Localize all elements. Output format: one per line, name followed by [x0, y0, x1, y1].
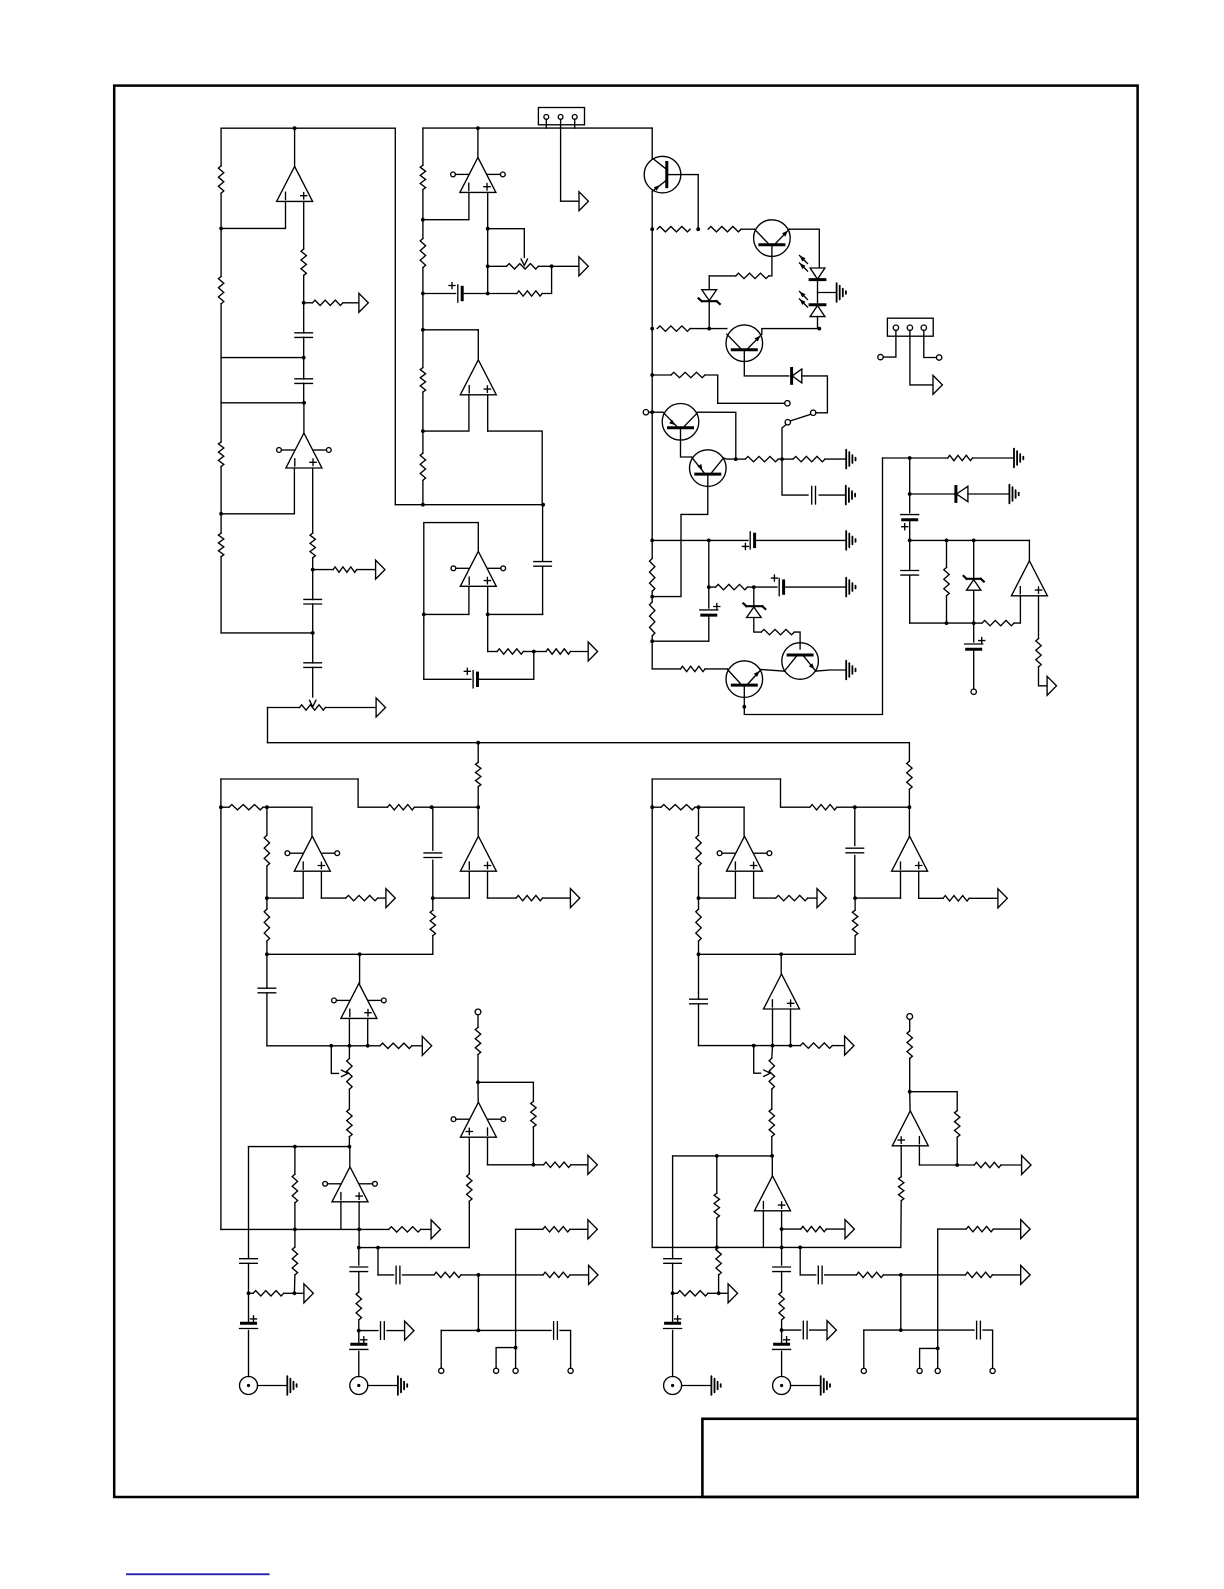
wire [422, 480, 424, 504]
wire [744, 458, 882, 715]
wire [570, 1228, 587, 1230]
polarized capacitor C10 [778, 579, 780, 596]
wire [220, 358, 222, 403]
wire [421, 1228, 430, 1230]
wire [220, 304, 222, 358]
wire [542, 266, 551, 293]
capacitor C32 [977, 1321, 981, 1339]
junction [650, 373, 654, 377]
resistor R68 [779, 1292, 784, 1320]
wire top rail stage A [221, 127, 395, 129]
wire [649, 411, 663, 413]
junction [696, 227, 700, 231]
wire [937, 1229, 939, 1348]
potentiometer VR4 [769, 1058, 774, 1089]
junction [650, 595, 654, 599]
resistor R42 [389, 1227, 421, 1232]
capacitor C26 [664, 1259, 682, 1264]
op-amp U16 [892, 1111, 928, 1146]
junction [265, 896, 269, 900]
junction [348, 1145, 352, 1149]
junction [219, 805, 223, 809]
wire [294, 1147, 296, 1175]
output port [1022, 1156, 1031, 1175]
resistor R52 [467, 1174, 472, 1201]
wire [854, 856, 856, 899]
junction [348, 1044, 352, 1048]
wire [488, 651, 497, 653]
junction [908, 492, 912, 496]
wire U3 output [477, 128, 479, 157]
junction [550, 264, 554, 268]
wire [294, 1203, 296, 1230]
resistor R29 [982, 620, 1014, 625]
wire [348, 1018, 350, 1045]
op-amp U12 [727, 836, 763, 871]
wire [818, 292, 836, 294]
wire stage B rail [221, 402, 304, 404]
wire [709, 586, 716, 588]
wire [1039, 667, 1047, 686]
wire [358, 1320, 360, 1331]
switch SW1 contact A [785, 401, 790, 406]
junction [293, 126, 297, 130]
wire [303, 383, 305, 403]
resistor R20 [671, 372, 705, 377]
resistor R15 [546, 649, 570, 654]
resistor R4 [218, 533, 223, 557]
wire Q1 base [681, 175, 699, 230]
wire [781, 779, 810, 807]
terminal [861, 1368, 866, 1373]
resistor R25 [716, 584, 748, 589]
wire [855, 897, 900, 899]
wire [422, 190, 424, 220]
junction [853, 805, 857, 809]
resistor R16 [657, 227, 690, 232]
wire [771, 1137, 773, 1156]
resistor R14 [497, 649, 523, 654]
wire stage E output [477, 807, 479, 836]
wire [248, 1264, 250, 1294]
wire [303, 275, 305, 302]
output port [304, 1284, 313, 1303]
wire [477, 1015, 479, 1028]
junction [908, 539, 912, 543]
wire [837, 806, 910, 808]
wire [909, 1059, 911, 1092]
wire [771, 1089, 773, 1109]
op-amp U10 [332, 1167, 368, 1202]
resistor R64 [801, 1226, 827, 1231]
wire [705, 375, 785, 403]
output port [588, 1220, 597, 1239]
wire [672, 1156, 674, 1259]
polarized capacitor C11 [700, 609, 718, 611]
wire [422, 128, 424, 165]
wire [358, 1331, 360, 1343]
wire [249, 1146, 350, 1148]
potentiometer VR3 [347, 1058, 352, 1089]
wire [312, 468, 314, 533]
resistor R47 [434, 1272, 461, 1277]
wire stage G' output [771, 1156, 773, 1176]
junction [541, 503, 545, 507]
wire [294, 1292, 302, 1294]
wire [249, 1292, 254, 1294]
wire [863, 1330, 865, 1368]
wire [220, 193, 222, 228]
wire [516, 1228, 543, 1230]
polarized capacitor C7 [472, 671, 474, 688]
wire [488, 613, 543, 615]
resistor R71 [966, 1226, 993, 1231]
junction [955, 1163, 959, 1167]
terminal [907, 1014, 913, 1020]
wire [819, 494, 845, 496]
hyperlink underline [126, 1573, 270, 1575]
junction [650, 410, 654, 414]
junction [358, 952, 362, 956]
capacitor C29 [803, 1321, 807, 1339]
junction [247, 1291, 251, 1295]
wire [368, 1045, 380, 1047]
wire right rail [651, 779, 653, 1247]
wire [423, 614, 425, 679]
terminal [935, 1368, 940, 1373]
wire [818, 317, 820, 329]
wire [359, 1330, 378, 1332]
wire [432, 860, 434, 898]
polarized capacitor C18 [242, 1322, 256, 1325]
resistor R67 [716, 1247, 721, 1275]
wire [937, 1348, 939, 1368]
arrowhead [800, 263, 806, 269]
wire [468, 871, 470, 898]
junction [311, 568, 315, 572]
wire [367, 1018, 369, 1045]
wire [331, 1046, 338, 1074]
wire [220, 403, 222, 442]
wire [267, 953, 433, 955]
wire stage D output [359, 954, 361, 983]
junction [752, 585, 756, 589]
junction [697, 952, 701, 956]
wire [312, 570, 314, 600]
transistor Q1 [644, 156, 681, 193]
wire [477, 787, 479, 808]
wire [883, 1274, 965, 1276]
wire [699, 1045, 791, 1047]
output port [579, 192, 588, 211]
wire [699, 953, 856, 955]
wire [433, 897, 470, 899]
junction [650, 539, 654, 543]
wire [810, 1329, 826, 1331]
wire [973, 623, 975, 642]
wire [248, 1293, 250, 1321]
junction [742, 705, 746, 709]
wire [920, 1348, 938, 1368]
junction [514, 1346, 518, 1350]
wire [440, 1330, 442, 1368]
wire [651, 636, 653, 669]
transistor Q6 [782, 643, 819, 680]
junction [532, 1163, 536, 1167]
resistor R32 [388, 805, 415, 810]
ground [1008, 485, 1010, 504]
output port [589, 1265, 598, 1284]
wire [221, 201, 285, 228]
capacitor C19 [350, 1267, 368, 1272]
wire [782, 1228, 801, 1230]
potentiometer VR2 [507, 264, 539, 269]
junction [771, 1044, 775, 1048]
junction [366, 1044, 370, 1048]
wire [854, 936, 856, 955]
output port [422, 1036, 431, 1055]
resistor R49 [543, 1227, 570, 1232]
wire [786, 586, 845, 588]
resistor R44 [292, 1247, 297, 1275]
connector J2 pin 3 [921, 325, 926, 330]
resistor R37 [264, 909, 269, 941]
wire [1038, 596, 1040, 639]
resistor R35 [346, 895, 378, 900]
output port [817, 889, 826, 908]
wire [817, 280, 819, 303]
resistor R60 [852, 910, 857, 935]
resistor R3 [218, 442, 223, 467]
resistor R18 [736, 273, 769, 278]
wire [378, 897, 385, 899]
resistor R2 [218, 276, 223, 303]
wire [910, 539, 1030, 541]
wire [781, 1351, 783, 1376]
wire [312, 604, 314, 633]
output port [570, 889, 579, 908]
wire [709, 328, 727, 330]
junction [789, 1044, 793, 1048]
wire [832, 1045, 843, 1047]
terminal [494, 1368, 499, 1373]
wire [910, 1092, 958, 1111]
capacitor C1 [295, 333, 313, 338]
arrowhead [800, 299, 806, 305]
resistor R51 [531, 1101, 536, 1127]
wire [794, 632, 800, 649]
wire [734, 871, 736, 898]
junction [357, 1329, 361, 1333]
LED D1 [810, 268, 825, 279]
connector J1 pin 1 [544, 115, 549, 120]
wire [652, 539, 709, 541]
resistor R53 [544, 1162, 571, 1167]
wire [790, 1009, 792, 1046]
resistor R54 [810, 805, 837, 810]
wire [910, 330, 933, 385]
wire [782, 459, 808, 495]
wire [698, 954, 700, 999]
wire [303, 337, 305, 357]
wire [947, 622, 974, 624]
junction [770, 1154, 774, 1158]
wire [724, 458, 736, 459]
wire [378, 1274, 394, 1276]
junction [715, 1246, 719, 1250]
wire [533, 1164, 543, 1166]
wire [422, 220, 424, 239]
capacitor C4 [304, 663, 322, 668]
terminal [513, 1368, 518, 1373]
output port [998, 889, 1007, 908]
resistor R6 [313, 300, 343, 305]
junction [430, 805, 434, 809]
output port [845, 1036, 854, 1055]
capacitor C13 [901, 571, 919, 576]
wire [761, 670, 784, 672]
resistor R50 [475, 1027, 480, 1054]
junction [376, 1246, 380, 1250]
wire [487, 229, 489, 267]
arrowhead [800, 256, 806, 262]
junction [293, 1291, 297, 1295]
wire [781, 1247, 783, 1265]
junction [650, 227, 654, 231]
wire long vertical [394, 128, 396, 505]
wire [312, 558, 314, 570]
wire [695, 806, 744, 808]
jack J4 [240, 1377, 258, 1395]
junction [293, 1228, 297, 1232]
junction [707, 327, 711, 331]
wire [220, 467, 222, 514]
wire [523, 651, 533, 653]
wire [716, 1218, 718, 1247]
diode D3 [790, 369, 793, 384]
wire [910, 493, 954, 495]
output port BP [376, 560, 385, 579]
junction [936, 1347, 940, 1351]
wire [534, 651, 546, 653]
wire rail [651, 375, 653, 540]
wire [673, 1155, 773, 1157]
wire [403, 1274, 435, 1276]
wire [754, 1046, 761, 1074]
junction [311, 631, 315, 635]
wire [268, 707, 300, 709]
wire [321, 897, 345, 899]
zener diode Z1 [702, 290, 717, 301]
output port [827, 1321, 836, 1340]
border frame [114, 86, 1137, 1497]
wire [781, 1211, 783, 1229]
wire U5 feedback [424, 523, 479, 615]
resistor R72 [907, 1031, 912, 1059]
wire [320, 871, 322, 898]
potentiometer VR3 wiper [342, 1070, 349, 1076]
junction [853, 896, 857, 900]
wire [754, 897, 776, 899]
wire [432, 898, 434, 910]
wire U2 output [303, 403, 305, 433]
wire U6 output [1028, 540, 1030, 560]
junction [476, 126, 480, 130]
potentiometer VR4 wiper [764, 1070, 771, 1076]
resistor R9 [420, 165, 425, 189]
wire [480, 652, 534, 680]
title block [702, 1419, 1137, 1497]
resistor R7 [310, 533, 315, 558]
terminal [439, 1368, 444, 1373]
wire [992, 1274, 1019, 1276]
junction [972, 539, 976, 543]
junction [219, 227, 223, 231]
wire [359, 1247, 470, 1249]
wire [938, 1228, 966, 1230]
wire [294, 1229, 296, 1247]
transistor Q5 [690, 450, 727, 487]
wire [698, 807, 700, 835]
wire [781, 1229, 783, 1247]
junction [293, 1145, 297, 1149]
wire [705, 668, 728, 670]
junction [357, 1246, 361, 1250]
resistor R17 [708, 227, 741, 232]
wire [487, 614, 489, 651]
wire [698, 941, 700, 954]
output port [386, 889, 395, 908]
wire [854, 898, 856, 910]
output port [1021, 1220, 1030, 1239]
wire [909, 522, 911, 541]
wire [924, 330, 937, 357]
transistor Q7 [726, 661, 763, 698]
op-amp U14 [764, 974, 800, 1009]
polarized capacitor C21 [352, 1343, 366, 1346]
wire [652, 778, 780, 780]
resistor R39 [516, 895, 542, 900]
wire [708, 617, 710, 641]
transistor Q7 emitter arrow [754, 671, 760, 677]
wire [900, 1146, 902, 1177]
wire [432, 807, 434, 850]
capacitor C2 [295, 379, 313, 384]
junction [421, 429, 425, 433]
wire [415, 806, 479, 808]
polarized capacitor C5 [457, 285, 459, 302]
resistor R66 [677, 1291, 708, 1296]
wire [368, 1385, 397, 1387]
junction [752, 1044, 756, 1048]
wire [782, 1329, 801, 1331]
wire [423, 293, 456, 295]
wire [753, 587, 755, 606]
junction [486, 292, 490, 296]
wire [778, 458, 782, 460]
wire [799, 1247, 801, 1275]
wire [258, 1385, 287, 1387]
junction [780, 1246, 784, 1250]
output port [431, 1220, 440, 1239]
wire [248, 1331, 250, 1377]
junction [421, 218, 425, 222]
wire [570, 651, 587, 653]
junction [302, 356, 306, 360]
output port [405, 1321, 414, 1340]
capacitor C28 [773, 1267, 791, 1272]
wire [377, 1248, 379, 1275]
